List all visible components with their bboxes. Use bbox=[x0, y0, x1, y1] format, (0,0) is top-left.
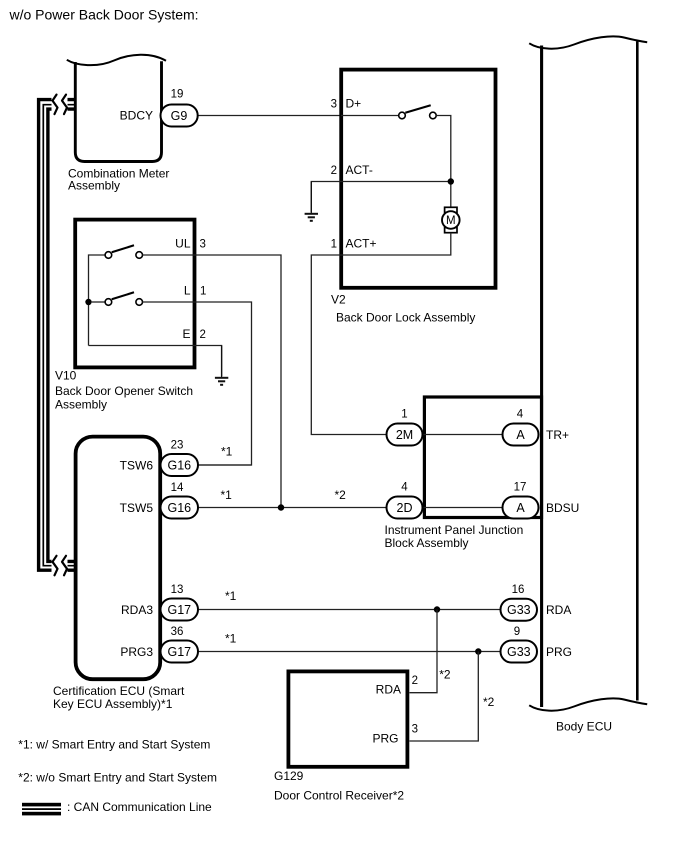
switch L bbox=[92, 292, 143, 305]
svg-text:3: 3 bbox=[331, 99, 337, 111]
svg-text:2M: 2M bbox=[396, 428, 413, 442]
svg-text:Block Assembly: Block Assembly bbox=[385, 536, 469, 550]
svg-text:PRG: PRG bbox=[546, 645, 572, 659]
svg-text:Key ECU Assembly)*1: Key ECU Assembly)*1 bbox=[53, 697, 173, 711]
connector G16 (TSW6) bbox=[161, 454, 199, 476]
motor M bbox=[442, 207, 460, 232]
connector G17 (PRG3) bbox=[161, 641, 199, 663]
body ECU left edge bbox=[540, 46, 543, 708]
svg-text:G33: G33 bbox=[507, 603, 531, 617]
svg-text:Door Control Receiver*2: Door Control Receiver*2 bbox=[274, 788, 404, 802]
svg-text:PRG3: PRG3 bbox=[120, 645, 153, 659]
svg-text:TSW5: TSW5 bbox=[120, 501, 154, 515]
wire TSW5 to 2D bbox=[198, 507, 387, 509]
svg-text:TSW6: TSW6 bbox=[120, 458, 154, 472]
wire TSW6 bbox=[198, 464, 252, 466]
svg-text:4: 4 bbox=[401, 482, 408, 494]
svg-text:*1: *1 bbox=[225, 589, 237, 603]
svg-text:*2: *2 bbox=[483, 695, 495, 709]
svg-text:2: 2 bbox=[412, 675, 418, 687]
svg-text:BDCY: BDCY bbox=[120, 109, 153, 123]
svg-text:V10: V10 bbox=[55, 368, 77, 382]
wire left vertical in V10 bbox=[89, 255, 105, 346]
svg-text:*1: *1 bbox=[221, 488, 233, 502]
svg-text:*2: *2 bbox=[439, 668, 451, 682]
svg-text:G17: G17 bbox=[167, 603, 191, 617]
svg-text:19: 19 bbox=[171, 89, 184, 101]
ground E bbox=[215, 346, 228, 385]
junction dot TSW5 bbox=[278, 504, 284, 510]
svg-text:BDSU: BDSU bbox=[546, 501, 579, 515]
svg-text:G129: G129 bbox=[274, 769, 304, 783]
svg-text:PRG: PRG bbox=[372, 732, 398, 746]
svg-text:3: 3 bbox=[412, 724, 418, 736]
connector A (TR+) bbox=[503, 424, 539, 446]
wire UL to junction on TSW5 line bbox=[143, 255, 282, 508]
connector 2M bbox=[387, 424, 423, 446]
legend CAN symbol bbox=[22, 803, 61, 816]
body ECU wavy top bbox=[529, 36, 647, 48]
wire switch to motor bbox=[436, 116, 451, 208]
body ECU wavy bottom bbox=[529, 698, 647, 710]
connector G9 bbox=[161, 105, 198, 127]
wire L to TSW6 bbox=[143, 302, 252, 465]
junction dot V10 bbox=[85, 299, 91, 305]
wire riser RDA to G129 bbox=[410, 610, 438, 693]
CAN break symbol bottom bbox=[52, 553, 68, 579]
svg-text:1: 1 bbox=[401, 409, 407, 421]
back door opener switch assembly box V10 bbox=[75, 220, 194, 368]
junction dot PRG bbox=[475, 648, 481, 654]
svg-text:E: E bbox=[182, 327, 190, 341]
svg-text:2D: 2D bbox=[397, 501, 413, 515]
combination meter assembly outline bbox=[75, 61, 161, 161]
svg-text:17: 17 bbox=[514, 482, 527, 494]
CAN communication line (inner thick) bbox=[48, 109, 76, 561]
svg-text:36: 36 bbox=[171, 626, 184, 638]
svg-text:ACT+: ACT+ bbox=[346, 237, 377, 251]
svg-text:1: 1 bbox=[331, 239, 337, 251]
wire E to ground bbox=[89, 346, 222, 377]
wire 2D to A bbox=[423, 507, 503, 509]
connector G33 (RDA) bbox=[501, 599, 538, 621]
svg-text:*2: *2 bbox=[335, 488, 347, 502]
svg-text:UL: UL bbox=[175, 237, 191, 251]
svg-text:Assembly: Assembly bbox=[55, 397, 107, 411]
connector G17 (RDA3) bbox=[161, 599, 199, 621]
wire D+ to switch bbox=[341, 115, 399, 117]
svg-text:Instrument Panel Junction: Instrument Panel Junction bbox=[385, 523, 524, 537]
door control receiver box G129 bbox=[288, 671, 407, 766]
svg-text:Assembly: Assembly bbox=[68, 179, 120, 193]
svg-text:: CAN Communication Line: : CAN Communication Line bbox=[67, 800, 212, 814]
svg-text:*1: *1 bbox=[221, 445, 233, 459]
svg-text:*2: w/o Smart Entry and Start: *2: w/o Smart Entry and Start System bbox=[18, 771, 217, 785]
svg-text:2: 2 bbox=[200, 329, 206, 341]
connector 2D bbox=[387, 497, 423, 519]
svg-text:Back Door Opener Switch: Back Door Opener Switch bbox=[55, 384, 193, 398]
wire RDA3 to G33 bbox=[198, 609, 501, 611]
svg-text:*1: *1 bbox=[225, 632, 237, 646]
svg-text:16: 16 bbox=[512, 584, 525, 596]
svg-text:Body ECU: Body ECU bbox=[556, 720, 612, 734]
svg-text:RDA: RDA bbox=[376, 683, 401, 697]
svg-text:L: L bbox=[184, 284, 191, 298]
switch in lock assembly bbox=[399, 105, 437, 119]
connector G33 (PRG) bbox=[501, 641, 538, 663]
wire riser PRG to G129 bbox=[410, 652, 479, 742]
switch UL bbox=[105, 245, 142, 258]
wire 2M to A bbox=[423, 434, 503, 436]
svg-text:23: 23 bbox=[171, 440, 184, 452]
svg-text:1: 1 bbox=[200, 286, 206, 298]
svg-text:G17: G17 bbox=[167, 645, 191, 659]
svg-text:RDA3: RDA3 bbox=[121, 603, 153, 617]
wire PRG3 to G33 bbox=[198, 651, 501, 653]
svg-text:14: 14 bbox=[171, 482, 184, 494]
svg-text:4: 4 bbox=[517, 409, 524, 421]
svg-text:RDA: RDA bbox=[546, 603, 571, 617]
CAN break symbol top bbox=[52, 91, 68, 117]
svg-text:9: 9 bbox=[514, 626, 520, 638]
svg-text:TR+: TR+ bbox=[546, 428, 569, 442]
svg-text:13: 13 bbox=[171, 584, 184, 596]
svg-text:G16: G16 bbox=[167, 501, 191, 515]
svg-text:G33: G33 bbox=[507, 645, 531, 659]
wire G9 to D+ bbox=[198, 115, 342, 117]
svg-text:D+: D+ bbox=[346, 97, 362, 111]
CAN communication line (middle thin) bbox=[43, 105, 76, 566]
junction dot RDA bbox=[434, 606, 440, 612]
svg-text:A: A bbox=[516, 501, 525, 515]
certification ECU box bbox=[76, 437, 161, 680]
wire ACT+ bbox=[311, 233, 451, 435]
svg-text:*1: w/ Smart Entry and Start S: *1: w/ Smart Entry and Start System bbox=[18, 738, 210, 752]
svg-text:Certification ECU (Smart: Certification ECU (Smart bbox=[53, 684, 185, 698]
junction dot lock bbox=[448, 178, 454, 184]
back door lock assembly box V2 bbox=[341, 70, 495, 288]
svg-text:G9: G9 bbox=[171, 109, 188, 123]
svg-text:M: M bbox=[446, 215, 456, 227]
svg-text:Back Door Lock Assembly: Back Door Lock Assembly bbox=[336, 311, 475, 325]
connector A (BDSU) bbox=[503, 497, 539, 519]
combination meter wavy top edge bbox=[67, 55, 166, 65]
body ECU right edge bbox=[636, 42, 639, 701]
svg-text:A: A bbox=[516, 428, 525, 442]
svg-text:ACT-: ACT- bbox=[346, 163, 373, 177]
connector G16 (TSW5) bbox=[161, 497, 199, 519]
wire ACT- from junction bbox=[311, 182, 451, 213]
CAN communication line (outer thick) bbox=[39, 100, 76, 571]
svg-text:V2: V2 bbox=[331, 293, 346, 307]
svg-text:G16: G16 bbox=[167, 459, 191, 473]
svg-text:2: 2 bbox=[331, 165, 337, 177]
ground ACT- bbox=[305, 182, 318, 221]
svg-text:3: 3 bbox=[200, 239, 206, 251]
instrument panel junction block box bbox=[424, 397, 541, 518]
svg-text:w/o Power Back Door System:: w/o Power Back Door System: bbox=[9, 7, 199, 23]
